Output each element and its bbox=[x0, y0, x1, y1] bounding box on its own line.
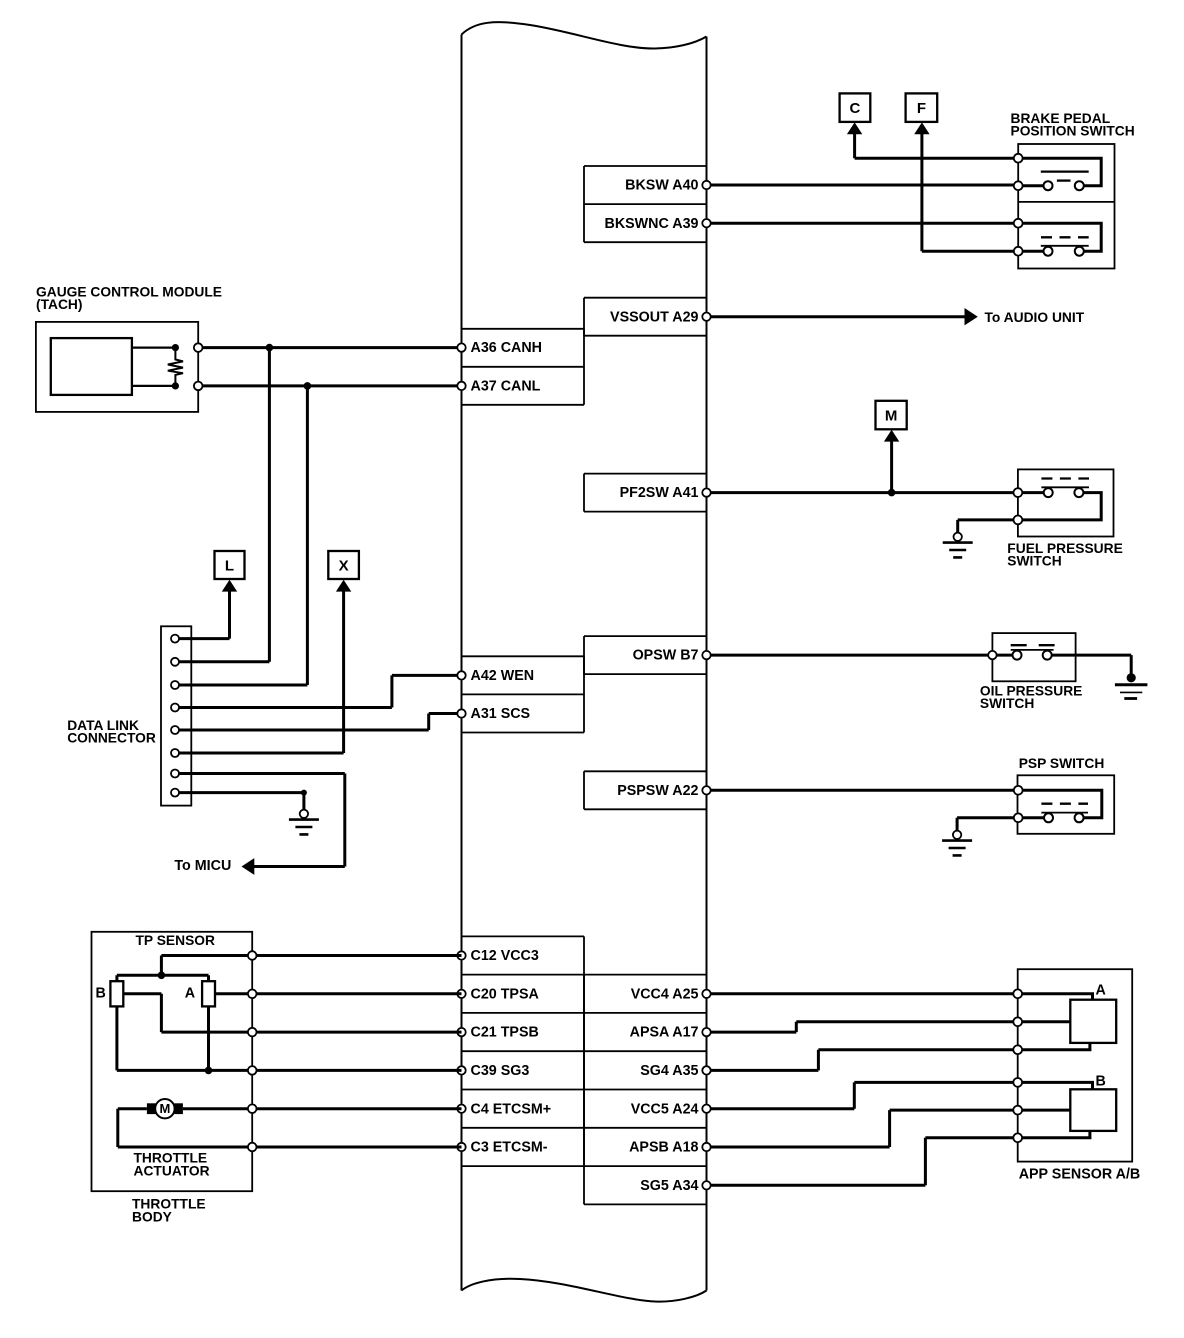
terminal VCC5 A24 bbox=[702, 1105, 710, 1113]
svg-text:SG4 A35: SG4 A35 bbox=[640, 1063, 698, 1079]
throttle body edge circle C20 bbox=[248, 990, 257, 999]
terminal A36 CANH bbox=[457, 343, 465, 351]
svg-text:SWITCH: SWITCH bbox=[1007, 553, 1061, 568]
ground symbol G (DLC) bbox=[300, 810, 308, 818]
fuel switch contacts bbox=[1044, 488, 1053, 497]
terminal C39 SG3 bbox=[457, 1066, 465, 1074]
boxed letter C bbox=[840, 93, 871, 122]
svg-text:BODY: BODY bbox=[132, 1210, 172, 1225]
APP sensor edge circle 3 bbox=[1013, 1045, 1022, 1054]
wire CANL drop to DLC pin 3 bbox=[175, 386, 307, 685]
gauge module internal leads bbox=[132, 348, 176, 386]
PSP switch contact loop bbox=[1018, 790, 1102, 818]
wire C3 ETCSM- to motor bbox=[118, 1109, 462, 1147]
svg-text:C4 ETCSM+: C4 ETCSM+ bbox=[471, 1101, 552, 1117]
throttle body edge circle C3 bbox=[248, 1143, 257, 1152]
APP sensor internal wires B bbox=[1018, 1082, 1093, 1137]
fuel pressure switch outer box bbox=[1018, 469, 1114, 536]
svg-text:APP SENSOR A/B: APP SENSOR A/B bbox=[1019, 1167, 1141, 1183]
wire CANH: gauge module to A36 terminal bbox=[198, 346, 461, 349]
junction dot resistor bottom bbox=[172, 382, 179, 389]
PSP switch terminal circles bbox=[1014, 786, 1023, 795]
wire up to M bbox=[890, 440, 893, 492]
brake pedal position switch outer box bbox=[1018, 144, 1114, 269]
junction dot SG3 bbox=[205, 1067, 213, 1075]
wire APSB A18 to APP sensor bbox=[707, 1110, 1018, 1147]
DLC pin 1 bbox=[171, 635, 179, 643]
wire OPSW B7 to oil pressure switch bbox=[707, 654, 1013, 657]
PSP switch outer box bbox=[1018, 775, 1115, 834]
svg-text:TP SENSOR: TP SENSOR bbox=[136, 933, 216, 948]
wire DLC pin5 to A31 SCS bbox=[175, 714, 462, 731]
svg-text:A37 CANL: A37 CANL bbox=[471, 379, 541, 395]
svg-text:C: C bbox=[849, 100, 860, 117]
APP sensor A connector box bbox=[1070, 1000, 1116, 1043]
terminal circle gauge box CANH bbox=[194, 343, 203, 352]
svg-text:VCC4 A25: VCC4 A25 bbox=[631, 986, 699, 1002]
throttle body edge circle C12 bbox=[248, 951, 257, 960]
oil switch terminal circle bbox=[988, 651, 996, 659]
junction dot resistor top bbox=[172, 344, 179, 351]
wire BKSWNC A39 to brake switch bbox=[707, 222, 1019, 225]
svg-text:A36 CANH: A36 CANH bbox=[471, 340, 543, 356]
throttle actuator motor terminal right bbox=[174, 1103, 183, 1114]
wire C12 VCC3 into TP sensor bbox=[161, 956, 461, 976]
band torn top edge bbox=[462, 22, 707, 48]
terminal BKSWNC A39 bbox=[702, 219, 710, 227]
wire DLC pin6 to X bbox=[175, 591, 344, 754]
junction dot pin8 corner bbox=[301, 790, 307, 796]
arrowhead into X box bbox=[336, 580, 351, 592]
svg-text:A42 WEN: A42 WEN bbox=[471, 668, 535, 684]
throttle body edge circle C39 bbox=[248, 1066, 257, 1075]
pin box OPSW B7 outline bbox=[584, 636, 707, 674]
terminal PF2SW A41 bbox=[702, 488, 710, 496]
brake switch bottom (NC) contact loop bbox=[1018, 223, 1101, 251]
terminal C21 TPSB bbox=[457, 1028, 465, 1036]
wire brake switch to F bbox=[922, 133, 1018, 251]
terminal VCC4 A25 bbox=[702, 990, 710, 998]
throttle actuator motor terminal left bbox=[147, 1103, 156, 1114]
wire BKSW A40 to brake switch bbox=[707, 184, 1019, 187]
wire DLC pin8 to ground bbox=[175, 793, 304, 810]
wire C20 TPSA from pot A wiper bbox=[215, 992, 462, 995]
oil pressure switch outer box bbox=[992, 633, 1075, 681]
svg-text:A: A bbox=[185, 986, 195, 1002]
svg-text:PSP SWITCH: PSP SWITCH bbox=[1019, 756, 1105, 771]
wire CANH drop to DLC pin 2 bbox=[175, 348, 269, 662]
svg-text:BKSWNC A39: BKSWNC A39 bbox=[605, 216, 699, 232]
APP sensor edge circle 4 bbox=[1013, 1078, 1022, 1087]
resistor R (CAN termination) bbox=[168, 348, 183, 386]
terminal SG4 A35 bbox=[702, 1066, 710, 1074]
pin box C12..C3 outline bbox=[462, 936, 585, 1166]
terminal A31 SCS bbox=[457, 709, 465, 717]
svg-text:(TACH): (TACH) bbox=[36, 297, 82, 312]
junction dot CANL bbox=[304, 382, 312, 390]
ECM/PCM band left edge bbox=[461, 35, 463, 1291]
svg-text:To AUDIO UNIT: To AUDIO UNIT bbox=[985, 310, 1085, 325]
terminal BKSW A40 bbox=[702, 181, 710, 189]
wire SG4 A35 to APP sensor bbox=[707, 1050, 1018, 1071]
throttle body edge circle C21 bbox=[248, 1028, 257, 1037]
DLC pin 2 bbox=[171, 658, 179, 666]
ground symbol G (fuel pressure switch) bbox=[954, 533, 962, 541]
wire C39 SG3 from pot bottoms bbox=[117, 1006, 462, 1070]
svg-text:A: A bbox=[1096, 983, 1106, 999]
junction dot TP supply bbox=[158, 972, 166, 980]
TP sensor supply link bar bbox=[117, 975, 209, 981]
wire APSA A17 to APP sensor bbox=[707, 1022, 1018, 1032]
terminal VSSOUT A29 bbox=[702, 313, 710, 321]
brake switch bottom dashed bar bbox=[1041, 236, 1089, 238]
arrowhead into M box bbox=[884, 430, 899, 442]
DLC pin 7 bbox=[171, 770, 179, 778]
arrowhead To MICU bbox=[242, 858, 255, 875]
arrowhead into F box bbox=[914, 122, 929, 134]
svg-text:M: M bbox=[885, 407, 898, 424]
svg-text:SWITCH: SWITCH bbox=[980, 696, 1034, 711]
arrowhead to audio unit bbox=[965, 308, 978, 325]
fuel switch contact loop bbox=[1018, 493, 1101, 520]
svg-text:POSITION SWITCH: POSITION SWITCH bbox=[1011, 123, 1135, 138]
terminal PSPSW A22 bbox=[702, 786, 710, 794]
data link connector body bbox=[161, 626, 191, 805]
brake switch top contacts bbox=[1044, 181, 1053, 190]
DLC pin 6 bbox=[171, 749, 179, 757]
svg-text:B: B bbox=[1096, 1074, 1106, 1090]
brake switch bottom thin bar bbox=[1041, 245, 1089, 247]
gauge control module inner box bbox=[51, 338, 132, 395]
pin box VCC4..SG5 outline bbox=[584, 975, 707, 1205]
wire VCC4 A25 to APP sensor bbox=[707, 992, 1018, 995]
boxed letter F bbox=[906, 93, 938, 122]
wire fuel switch to ground bbox=[958, 520, 1018, 533]
DLC pin 8 bbox=[171, 789, 179, 797]
svg-text:B: B bbox=[96, 986, 106, 1002]
oil switch dashed bar bbox=[1011, 644, 1055, 646]
svg-text:OPSW B7: OPSW B7 bbox=[633, 648, 699, 664]
svg-text:SG5 A34: SG5 A34 bbox=[640, 1178, 698, 1194]
svg-text:C20 TPSA: C20 TPSA bbox=[471, 986, 539, 1002]
ECM/PCM band right edge bbox=[706, 37, 708, 1291]
wire SG5 A34 to APP sensor bbox=[707, 1138, 1018, 1186]
DLC pin 4 bbox=[171, 704, 179, 712]
pin box VSSOUT A29 outline bbox=[584, 298, 707, 336]
terminal APSA A17 bbox=[702, 1028, 710, 1036]
svg-text:X: X bbox=[339, 557, 349, 574]
fuel switch terminal circles bbox=[1014, 488, 1023, 497]
band torn bottom edge bbox=[462, 1279, 707, 1302]
PSP switch thin bar bbox=[1041, 812, 1088, 814]
PSP switch dashed bar bbox=[1041, 803, 1088, 805]
svg-text:To MICU: To MICU bbox=[174, 858, 231, 874]
svg-text:F: F bbox=[917, 100, 926, 117]
arrowhead into C box bbox=[847, 122, 862, 134]
oil switch thin bar bbox=[1011, 649, 1054, 651]
ground symbol chassis (oil pressure switch) bbox=[1127, 673, 1136, 682]
svg-text:C21 TPSB: C21 TPSB bbox=[471, 1025, 539, 1041]
svg-text:C39 SG3: C39 SG3 bbox=[471, 1063, 530, 1079]
junction dot CANH bbox=[266, 344, 274, 352]
wire brake switch to C bbox=[855, 133, 1019, 158]
fuel switch dashed bar bbox=[1041, 477, 1089, 479]
pin box BKSW A40 / BKSWNC A39 outline bbox=[584, 166, 707, 242]
wire VSSOUT A29 to audio unit bbox=[707, 315, 967, 318]
svg-text:VCC5 A24: VCC5 A24 bbox=[631, 1101, 699, 1117]
terminal A42 WEN bbox=[457, 671, 465, 679]
APP sensor edge circle 5 bbox=[1013, 1106, 1022, 1115]
brake switch terminal circles bbox=[1014, 154, 1023, 163]
APP sensor internal wires A bbox=[1018, 994, 1093, 1050]
svg-text:CONNECTOR: CONNECTOR bbox=[67, 731, 156, 746]
throttle body outer box bbox=[92, 932, 253, 1191]
gauge control module outer box bbox=[36, 322, 198, 412]
wire C21 TPSB from pot B wiper bbox=[123, 994, 461, 1032]
wire PF2SW A41 to fuel pressure switch bbox=[707, 491, 1018, 494]
svg-text:PSPSW A22: PSPSW A22 bbox=[617, 783, 698, 799]
svg-text:VSSOUT A29: VSSOUT A29 bbox=[610, 309, 699, 325]
brake switch top (NO) contact loop bbox=[1018, 158, 1101, 186]
wire CANL: gauge module to A37 terminal bbox=[198, 384, 461, 387]
terminal C12 VCC3 bbox=[457, 951, 465, 959]
boxed letter M bbox=[876, 401, 907, 430]
boxed letter L bbox=[215, 551, 245, 579]
wire VCC5 A24 to APP sensor bbox=[707, 1082, 1018, 1108]
terminal C20 TPSA bbox=[457, 990, 465, 998]
wire DLC pin4 to A42 WEN bbox=[175, 675, 462, 707]
oil switch contacts bbox=[1013, 651, 1022, 660]
wire oil switch to chassis ground bbox=[1052, 655, 1132, 676]
PSP switch contacts bbox=[1044, 813, 1053, 822]
svg-text:PF2SW A41: PF2SW A41 bbox=[620, 485, 699, 501]
svg-text:APSA A17: APSA A17 bbox=[630, 1025, 699, 1041]
svg-text:L: L bbox=[225, 557, 234, 574]
svg-text:A31 SCS: A31 SCS bbox=[471, 706, 531, 722]
terminal APSB A18 bbox=[702, 1143, 710, 1151]
wire DLC pin7 to MICU bbox=[175, 774, 345, 867]
DLC pin 5 bbox=[171, 726, 179, 734]
wire PSP switch to ground bbox=[957, 818, 1018, 831]
wire DLC pin1 to L bbox=[175, 591, 230, 639]
arrowhead into L box bbox=[222, 580, 237, 592]
brake switch top state bar bbox=[1041, 170, 1089, 172]
wire PSPSW A22 to PSP switch bbox=[707, 789, 1019, 792]
terminal C3 ETCSM- bbox=[457, 1143, 465, 1151]
pin box PSPSW A22 outline bbox=[584, 771, 707, 809]
APP sensor B connector box bbox=[1070, 1089, 1116, 1131]
ground symbol G (PSP switch) bbox=[953, 831, 961, 839]
terminal C4 ETCSM+ bbox=[457, 1105, 465, 1113]
terminal OPSW B7 bbox=[702, 651, 710, 659]
svg-text:APSB A18: APSB A18 bbox=[629, 1140, 698, 1156]
pin box A42 WEN / A31 SCS outline bbox=[462, 656, 585, 732]
svg-text:C3 ETCSM-: C3 ETCSM- bbox=[471, 1140, 548, 1156]
terminal circle gauge box CANL bbox=[194, 382, 203, 391]
svg-text:M: M bbox=[159, 1101, 170, 1116]
wire C4 ETCSM+ to motor bbox=[183, 1107, 462, 1110]
DLC pin 3 bbox=[171, 681, 179, 689]
APP sensor edge circle 6 bbox=[1013, 1133, 1022, 1142]
APP sensor edge circle 1 bbox=[1013, 989, 1022, 998]
junction dot PF2SW/M bbox=[888, 489, 896, 497]
throttle actuator motor circle bbox=[155, 1099, 174, 1118]
potentiometer B body bbox=[110, 981, 123, 1006]
svg-text:BKSW A40: BKSW A40 bbox=[625, 178, 698, 194]
throttle body edge circle C4 bbox=[248, 1104, 257, 1113]
brake switch divider bbox=[1018, 201, 1114, 203]
svg-text:C12 VCC3: C12 VCC3 bbox=[471, 948, 539, 964]
brake switch top dash bbox=[1057, 179, 1071, 181]
APP sensor outer box bbox=[1018, 969, 1132, 1161]
terminal A37 CANL bbox=[457, 382, 465, 390]
terminal SG5 A34 bbox=[702, 1181, 710, 1189]
APP sensor edge circle 2 bbox=[1013, 1017, 1022, 1026]
fuel switch thin bar bbox=[1041, 486, 1089, 488]
potentiometer A body bbox=[202, 981, 215, 1006]
svg-text:ACTUATOR: ACTUATOR bbox=[134, 1163, 210, 1178]
pin box A36 CANH / A37 CANL outline bbox=[462, 329, 585, 405]
boxed letter X bbox=[328, 551, 359, 579]
brake switch bottom contacts bbox=[1044, 247, 1053, 256]
pin box PF2SW A41 outline bbox=[584, 474, 707, 512]
